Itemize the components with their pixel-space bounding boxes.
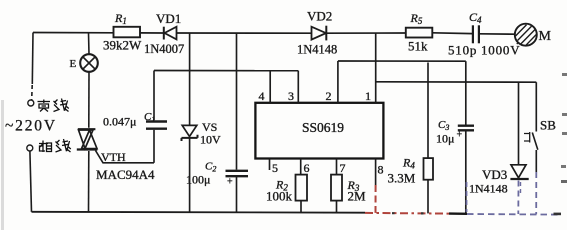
svg-text:~220V: ~220V — [5, 118, 57, 135]
resistor R3 — [331, 175, 366, 213]
diode VD2 — [297, 9, 337, 57]
motor M — [515, 24, 552, 46]
pin 8 — [375, 159, 377, 186]
svg-text:4: 4 — [259, 89, 265, 103]
diode VD3 — [469, 82, 529, 195]
wire bottom rail black — [32, 211, 366, 214]
pushbutton SB — [524, 82, 556, 172]
capacitor C3 — [436, 61, 474, 214]
svg-text:39k2W: 39k2W — [103, 38, 142, 53]
wire bottom rail blue dashed section — [467, 172, 559, 215]
pin 5 stub — [269, 159, 271, 171]
wire top rail — [33, 33, 515, 35]
svg-text:1N4007: 1N4007 — [144, 42, 184, 56]
terminal node 相线 (live) — [27, 139, 71, 152]
capacitor C4 — [448, 10, 520, 58]
svg-text:3.3M: 3.3M — [388, 171, 416, 186]
triac VTH — [77, 129, 155, 211]
svg-text:VD1: VD1 — [156, 11, 181, 26]
wire pin1 bus y=82 — [376, 81, 537, 83]
wire left vertical to neutral terminal — [32, 33, 33, 100]
pin 4 — [269, 71, 271, 103]
zener diode VS — [182, 33, 222, 212]
svg-text:1N4148: 1N4148 — [469, 182, 508, 196]
svg-text:7: 7 — [340, 161, 346, 175]
resistor R1 — [103, 11, 142, 53]
pin 6 — [300, 159, 302, 175]
svg-text:510p: 510p — [448, 43, 477, 58]
svg-text:+: + — [227, 177, 233, 188]
svg-text:1000V: 1000V — [481, 43, 520, 58]
terminal node 零线 (neutral) — [28, 99, 69, 112]
svg-text:2M: 2M — [348, 189, 367, 204]
wire live terminal to bottom rail — [30, 151, 32, 212]
svg-text:VD2: VD2 — [307, 9, 332, 24]
resistor R2 — [266, 175, 307, 213]
wire pin2 bus y=61 — [338, 60, 466, 62]
svg-text:6: 6 — [304, 161, 310, 175]
pin 2 — [337, 61, 339, 103]
svg-text:10V: 10V — [200, 133, 221, 147]
pin 7 — [336, 159, 338, 175]
diode VD1 — [144, 11, 184, 56]
lamp E — [70, 33, 98, 128]
svg-text:VD3: VD3 — [482, 167, 507, 182]
resistor R5 — [406, 11, 433, 54]
wire supply bus y=70.5 — [154, 70, 298, 72]
capacitor C2 — [186, 33, 248, 212]
svg-text:1: 1 — [365, 89, 371, 103]
svg-text:100μ: 100μ — [186, 173, 210, 187]
resistor R4 — [388, 63, 434, 214]
svg-text:SB: SB — [540, 118, 556, 133]
svg-text:2: 2 — [326, 89, 332, 103]
svg-text:8: 8 — [378, 163, 384, 177]
svg-text:51k: 51k — [408, 39, 428, 54]
wire bottom rail red dashed section — [365, 185, 449, 214]
svg-text:M: M — [539, 29, 552, 44]
pin 1 — [375, 33, 377, 103]
svg-text:5: 5 — [272, 161, 278, 175]
svg-text:0.047μ: 0.047μ — [103, 115, 136, 129]
IC U1 SS0619 — [255, 33, 383, 185]
svg-text:VTH: VTH — [101, 150, 126, 164]
svg-text:10μ: 10μ — [436, 132, 454, 146]
svg-text:+: + — [457, 130, 463, 141]
svg-text:3: 3 — [288, 89, 294, 103]
svg-text:SS0619: SS0619 — [302, 120, 344, 135]
capacitor C1 — [103, 71, 167, 163]
svg-text:E: E — [70, 58, 77, 70]
svg-text:100k: 100k — [266, 189, 293, 204]
wire bottom rail black joint at C3 — [449, 212, 467, 215]
svg-text:MAC94A4: MAC94A4 — [96, 167, 155, 182]
svg-text:1N4148: 1N4148 — [297, 43, 337, 57]
pin 3 — [297, 71, 299, 103]
